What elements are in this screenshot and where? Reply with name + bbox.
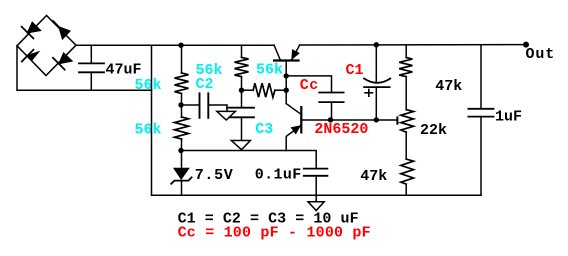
wire bottom rail (152, 194, 482, 196)
capacitor 1uF (468, 45, 493, 196)
svg-text:C3: C3 (255, 121, 273, 138)
capacitor C1 (364, 45, 390, 120)
svg-text:Out: Out (526, 46, 556, 63)
svg-text:47uF: 47uF (106, 62, 142, 79)
svg-text:Cc = 100 pF - 1000 pF: Cc = 100 pF - 1000 pF (178, 225, 371, 242)
wire top rail left section (76, 44, 274, 46)
node junction dots left chain (178, 43, 183, 154)
node junction dot R3/R4 (239, 88, 244, 93)
transistor Q1 (pass transistor, PNP) (274, 45, 299, 103)
zener diode D5 7.5V (171, 151, 191, 196)
svg-text:7.5V: 7.5V (195, 167, 234, 184)
pot wiper contact bar (396, 117, 398, 123)
wire top rail right section (300, 44, 527, 46)
svg-text:56k: 56k (135, 77, 162, 94)
resistor R2 56k (lower left) (175, 105, 189, 151)
capacitor Cc (319, 93, 343, 120)
svg-text:Cc: Cc (300, 77, 319, 94)
svg-text:47k: 47k (360, 168, 387, 185)
resistor R4 56k (horizontal) (242, 83, 287, 97)
wire vertical drop at x=151.5 (151, 45, 153, 195)
node junction dot C1 top (374, 42, 379, 47)
svg-text:56k: 56k (256, 61, 283, 78)
diode D1 (top-left edge) (22, 22, 41, 38)
svg-text:C2: C2 (196, 76, 214, 93)
svg-text:22k: 22k (420, 122, 447, 139)
diode D3 (bottom-left edge) (22, 50, 39, 62)
capacitor 0.1uF (304, 169, 328, 196)
node Out terminal dot (523, 42, 529, 48)
node junction dots on Q1 stem (284, 73, 289, 93)
capacitor 47uF (79, 45, 104, 90)
svg-text:1uF: 1uF (495, 109, 522, 126)
svg-text:0.1uF: 0.1uF (255, 166, 302, 183)
plus sign of C1 (365, 90, 372, 97)
resistor R3 56k (middle) (235, 45, 249, 107)
svg-text:2N6520: 2N6520 (314, 121, 368, 138)
diode D2 (top-right edge) (53, 21, 70, 39)
bridge rectifier diamond (17, 16, 76, 76)
capacitor C2 (182, 93, 228, 118)
svg-text:47k: 47k (435, 78, 462, 95)
capacitor C3 (227, 108, 254, 141)
arrow (C2 to node) (217, 111, 236, 120)
resistor R1 56k (upper left) (175, 45, 189, 104)
svg-text:56k: 56k (135, 122, 162, 139)
diode D4 (bottom-right edge) (53, 53, 72, 70)
wire base rail of Q2 (301, 119, 397, 121)
node junction dots on base rail (328, 117, 379, 122)
wire to Cc (286, 76, 331, 93)
ground symbol below rail (308, 195, 324, 210)
resistor R5 47k (top right) (399, 45, 412, 110)
resistor R7 47k (bottom right) (401, 159, 414, 195)
wire emitter rail (182, 151, 317, 169)
transistor Q2 2N6520 (PNP) (286, 104, 301, 151)
resistor R6 22k (middle right, pot) (401, 110, 414, 160)
svg-text:C1: C1 (346, 62, 364, 79)
wire from bridge left vertex down and right (17, 46, 152, 91)
arrow (C3 to emitter rail) (231, 141, 250, 150)
